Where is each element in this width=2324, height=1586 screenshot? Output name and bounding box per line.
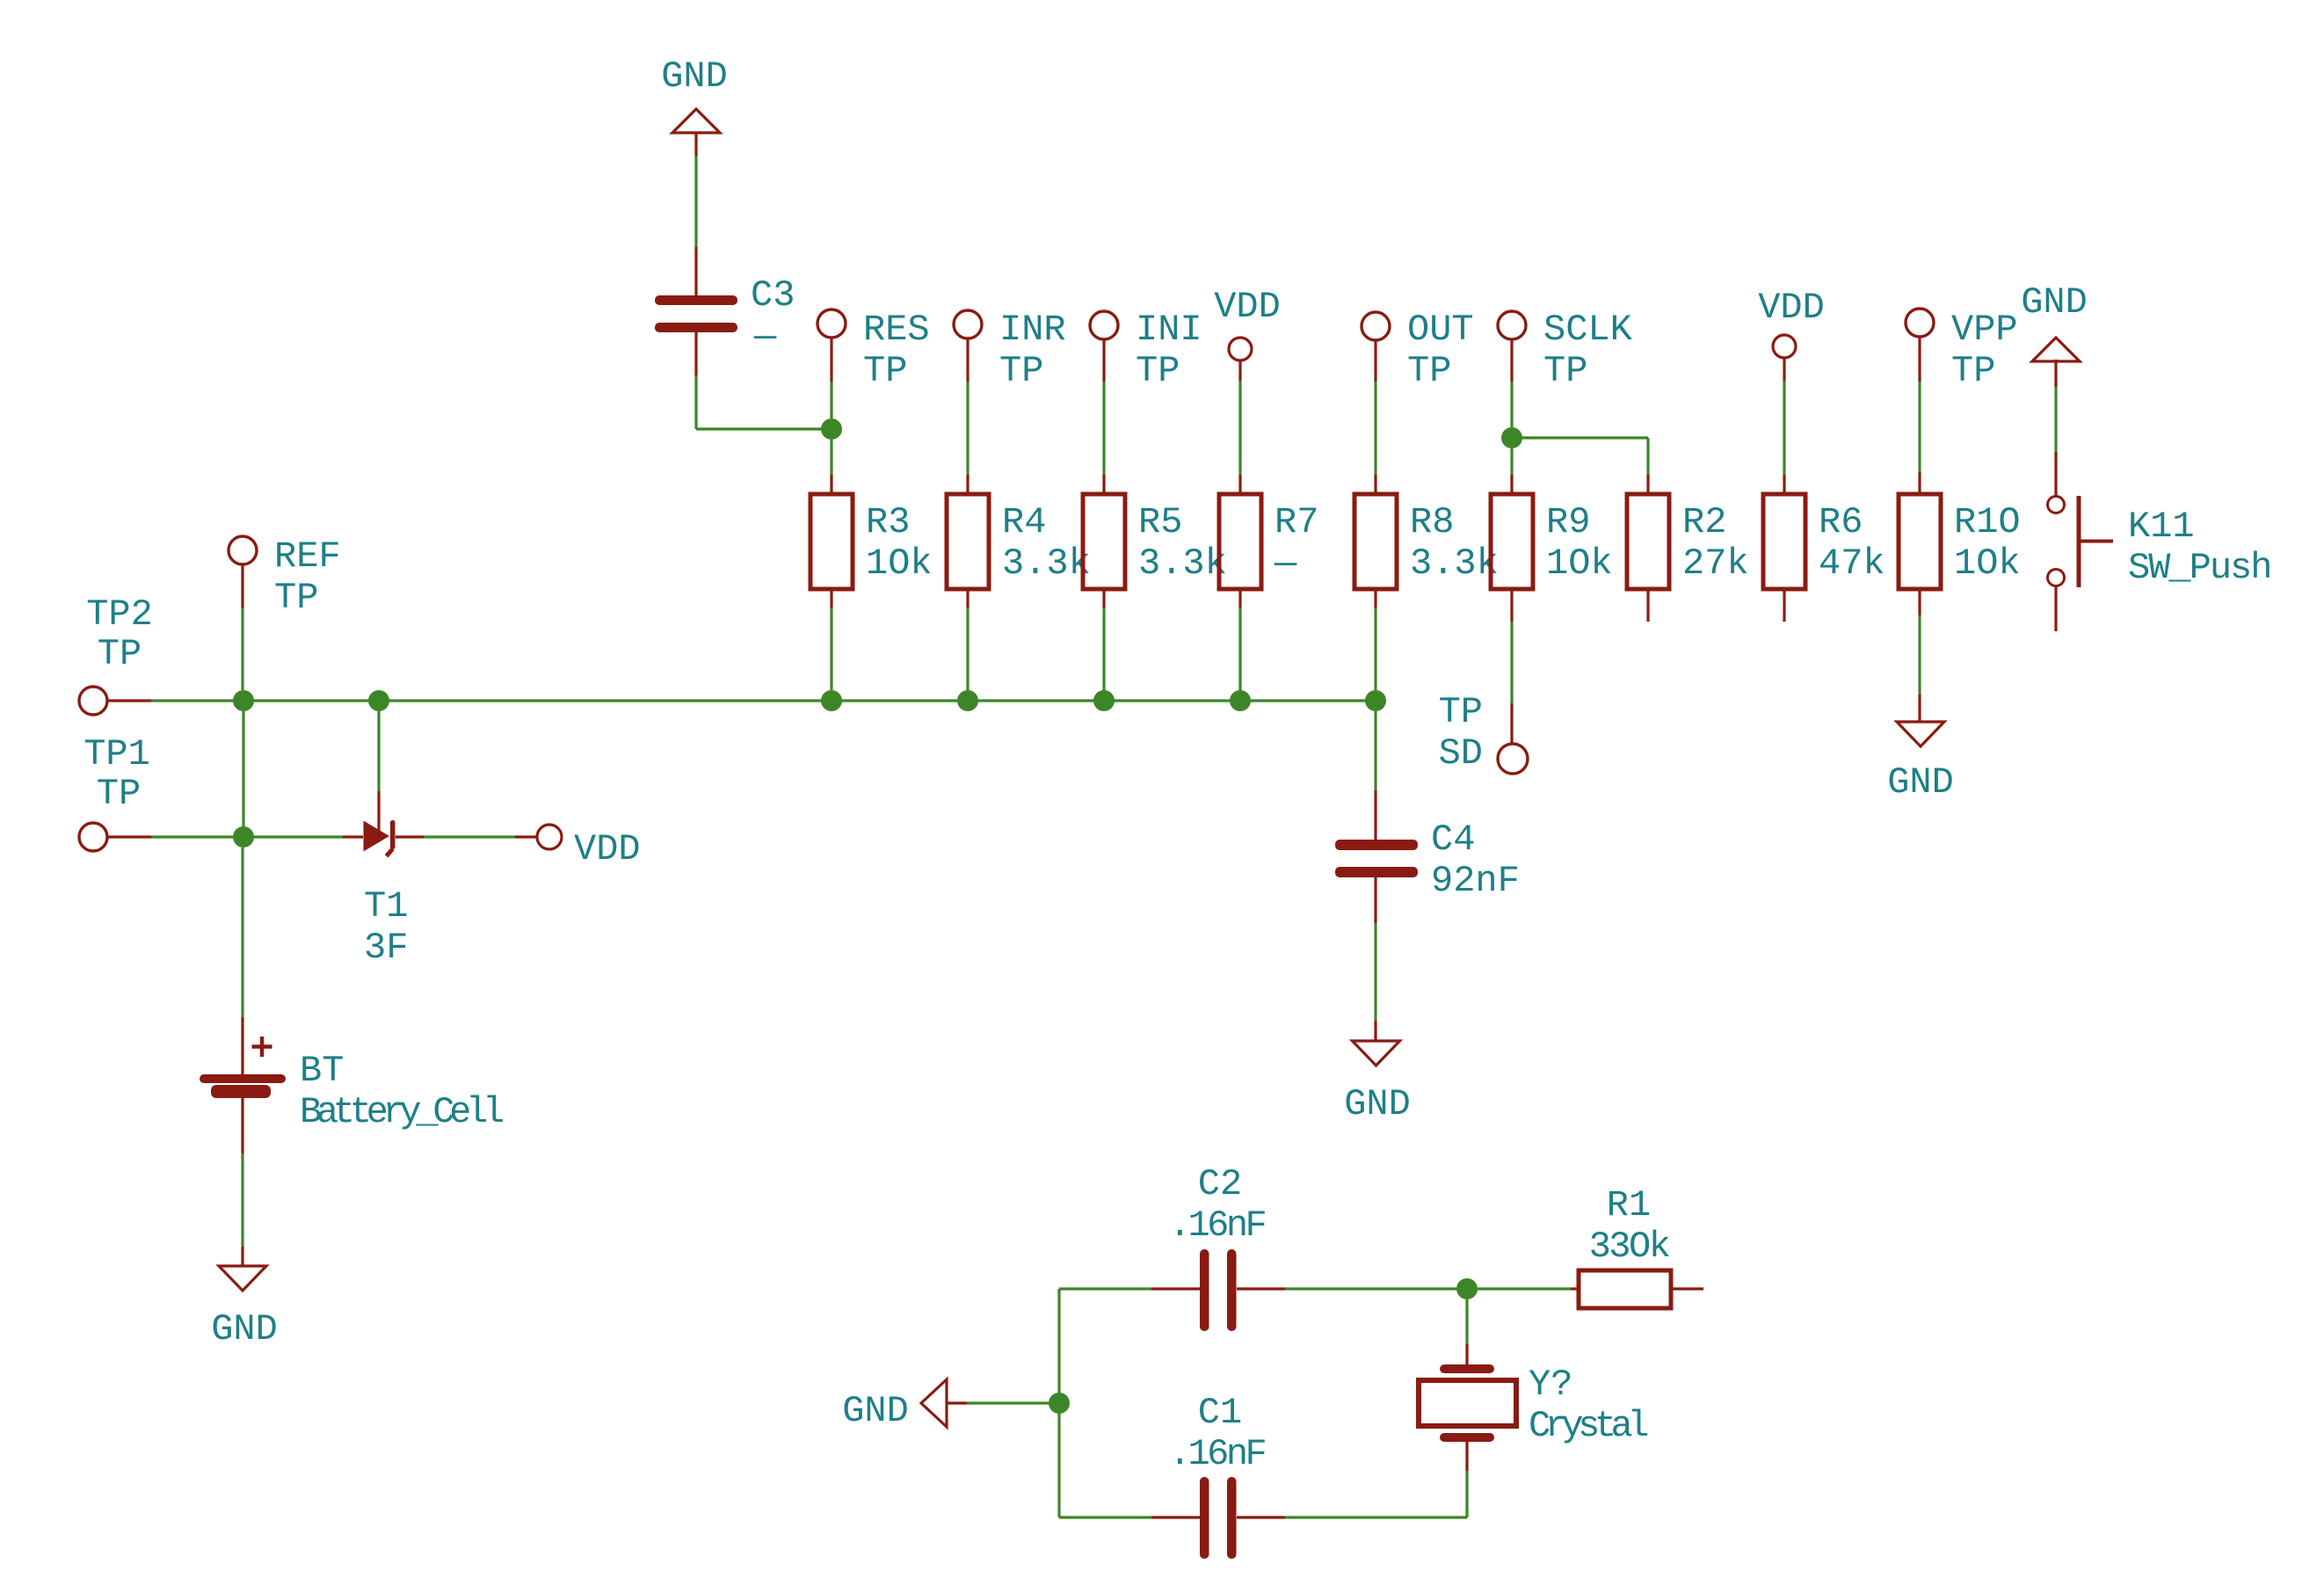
svg-text:VDD: VDD <box>1214 286 1281 328</box>
svg-text:R1O: R1O <box>1954 501 2021 543</box>
svg-text:INR: INR <box>999 309 1066 351</box>
svg-text:TP: TP <box>999 350 1043 392</box>
svg-text:SD: SD <box>1439 732 1483 775</box>
svg-text:R3: R3 <box>866 501 910 543</box>
svg-text:T1: T1 <box>364 885 408 928</box>
svg-text:R8: R8 <box>1410 501 1454 543</box>
svg-text:Battery_Cell: Battery_Cell <box>300 1091 503 1133</box>
svg-text:R9: R9 <box>1546 501 1590 543</box>
svg-text:47k: 47k <box>1819 542 1885 585</box>
svg-text:—: — <box>753 316 777 358</box>
svg-text:TP: TP <box>274 577 318 619</box>
svg-text:R6: R6 <box>1819 501 1863 543</box>
svg-text:R4: R4 <box>1002 501 1046 543</box>
svg-text:TP: TP <box>98 633 142 675</box>
svg-text:GND: GND <box>842 1390 909 1432</box>
svg-text:3.3k: 3.3k <box>1410 542 1499 585</box>
svg-text:REF: REF <box>274 535 341 578</box>
svg-text:33Ok: 33Ok <box>1589 1226 1670 1268</box>
svg-text:GND: GND <box>2021 281 2088 324</box>
svg-text:VDD: VDD <box>574 828 641 870</box>
svg-text:3.3k: 3.3k <box>1002 542 1091 585</box>
svg-text:GND: GND <box>211 1308 278 1350</box>
svg-text:Crystal: Crystal <box>1529 1405 1647 1447</box>
svg-text:SCLK: SCLK <box>1543 309 1633 351</box>
svg-text:TP2: TP2 <box>86 593 153 636</box>
svg-text:R5: R5 <box>1138 501 1182 543</box>
svg-text:3F: 3F <box>364 927 408 969</box>
svg-text:TP1: TP1 <box>84 733 150 775</box>
svg-text:C2: C2 <box>1198 1163 1242 1205</box>
svg-text:C1: C1 <box>1198 1392 1242 1434</box>
svg-text:—: — <box>1274 542 1297 585</box>
svg-text:SW_Push: SW_Push <box>2128 547 2270 589</box>
svg-text:GND: GND <box>661 55 728 98</box>
svg-text:K11: K11 <box>2128 506 2195 548</box>
svg-text:OUT: OUT <box>1407 309 1474 351</box>
svg-text:TP: TP <box>1407 350 1451 392</box>
svg-text:R7: R7 <box>1275 501 1318 543</box>
svg-text:VDD: VDD <box>1758 287 1825 329</box>
svg-text:1Ok: 1Ok <box>1954 542 2021 585</box>
svg-text:GND: GND <box>1344 1083 1411 1125</box>
svg-text:RES: RES <box>863 309 930 351</box>
svg-text:3.3k: 3.3k <box>1138 542 1227 585</box>
svg-text:TP: TP <box>1439 691 1483 733</box>
svg-text:GND: GND <box>1887 761 1954 804</box>
svg-text:92nF: 92nF <box>1431 860 1520 902</box>
svg-text:BT: BT <box>300 1050 344 1092</box>
svg-text:R1: R1 <box>1607 1184 1651 1226</box>
svg-text:C3: C3 <box>751 274 795 316</box>
svg-text:INI: INI <box>1136 309 1202 351</box>
svg-text:VPP: VPP <box>1951 309 2018 351</box>
svg-text:1Ok: 1Ok <box>1546 542 1613 585</box>
svg-text:TP: TP <box>1543 350 1587 392</box>
svg-text:TP: TP <box>1136 350 1180 392</box>
svg-text:Y?: Y? <box>1529 1364 1572 1406</box>
svg-text:.16nF: .16nF <box>1169 1433 1266 1475</box>
svg-text:.16nF: .16nF <box>1169 1204 1266 1247</box>
svg-text:TP: TP <box>1951 350 1995 392</box>
svg-text:R2: R2 <box>1682 501 1726 543</box>
svg-text:TP: TP <box>97 773 141 815</box>
svg-text:1Ok: 1Ok <box>866 542 933 585</box>
svg-text:C4: C4 <box>1431 818 1475 861</box>
svg-text:27k: 27k <box>1682 542 1749 585</box>
svg-text:TP: TP <box>863 350 907 392</box>
